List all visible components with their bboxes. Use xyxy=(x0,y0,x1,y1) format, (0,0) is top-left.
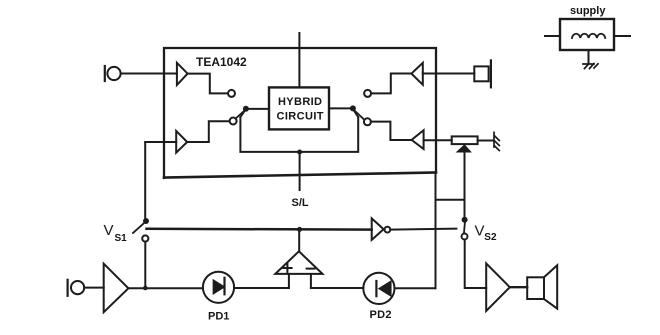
wire VS2 drop to A5 xyxy=(465,240,487,289)
inductor L (supply coil) xyxy=(572,34,605,38)
wire lower contact to A4 xyxy=(371,122,412,140)
svg-text:TEA1042: TEA1042 xyxy=(196,55,247,69)
wire A4 to potentiometer xyxy=(424,139,452,141)
svg-text:S2: S2 xyxy=(484,232,497,243)
inverter U2 xyxy=(372,218,384,240)
wire M1 to A1 xyxy=(121,73,177,75)
svg-text:V: V xyxy=(475,223,485,240)
svg-text:HYBRID: HYBRID xyxy=(278,96,322,108)
linkage stub left xyxy=(240,112,244,118)
switch VS1 pole dot xyxy=(143,218,149,224)
contact upper-right (open circle) xyxy=(364,90,371,97)
contact lower-right (open circle) xyxy=(364,118,371,125)
amplifier A2 xyxy=(176,131,187,153)
switch VS2 pole dot xyxy=(462,217,468,223)
inverter U2 bubble xyxy=(385,227,391,233)
wire A2 input xyxy=(145,141,176,143)
ground (supply) xyxy=(583,64,598,69)
wire VS1 to inverter (signal line) xyxy=(147,228,372,231)
microphone M1 xyxy=(105,66,121,81)
wire rail PD1 to opamp xyxy=(234,287,289,289)
amplifier A1 xyxy=(177,63,188,85)
switch S2 pole dot xyxy=(350,105,356,111)
ground (chassis) xyxy=(494,132,499,150)
wire supply left xyxy=(545,35,560,37)
svg-text:PD2: PD2 xyxy=(370,309,392,321)
photodiode PD2 xyxy=(363,273,394,304)
wire supply right xyxy=(614,35,630,37)
amplifier A6 xyxy=(104,264,129,313)
wire supply ground stub xyxy=(588,50,590,64)
contact lower-left (open circle) xyxy=(230,118,237,125)
wire A2 out to lower contact xyxy=(187,121,229,142)
amplifier A3 xyxy=(411,63,422,85)
wire opamp riser xyxy=(298,229,300,251)
switch VS2 link xyxy=(464,223,465,234)
photodiode PD1 xyxy=(203,272,234,303)
wire R1 to ground xyxy=(478,140,493,142)
amplifier A4 xyxy=(412,130,424,149)
wire upper contact to A3 xyxy=(371,74,411,94)
switch VS1 contact (open circle) xyxy=(142,235,148,241)
potentiometer R1 wiper arrow xyxy=(458,145,471,151)
wire right riser (rail up) xyxy=(435,173,437,289)
earpiece xyxy=(474,60,491,87)
label minus xyxy=(307,268,315,270)
wire A3 to earpiece xyxy=(423,73,475,75)
wire A1 out to upper contact xyxy=(188,74,228,94)
wire hybrid right to pole xyxy=(329,107,353,109)
wire VS1 riser xyxy=(144,142,146,218)
wire A5 to speaker xyxy=(510,286,527,288)
wire S/L drop xyxy=(299,152,301,190)
wire riser link to wiper xyxy=(436,199,465,201)
switch VS1 lever xyxy=(133,223,145,233)
switch S1 lever xyxy=(236,111,245,119)
svg-text:V: V xyxy=(104,222,114,239)
wire inverter to VS2 xyxy=(390,229,456,230)
svg-text:S1: S1 xyxy=(115,233,128,244)
wire opamp plus leg xyxy=(288,274,290,288)
switch S2 lever xyxy=(355,111,365,120)
wire rail opamp to PD2 xyxy=(311,287,363,289)
wire pole to hybrid left xyxy=(246,108,269,110)
node junction opamp feed xyxy=(297,227,302,232)
switch VS2 contact (open circle) xyxy=(462,234,468,240)
linkage loop S/L xyxy=(240,117,358,152)
label plus xyxy=(283,264,291,273)
wire rail PD2 to riser xyxy=(395,287,436,289)
switch S1 pole dot xyxy=(243,106,249,112)
svg-text:CIRCUIT: CIRCUIT xyxy=(277,111,324,123)
wire VS1 contact drop xyxy=(144,242,146,288)
node junction at rail xyxy=(143,286,148,291)
amplifier A5 xyxy=(486,263,510,311)
wire opamp minus leg xyxy=(310,274,312,288)
microphone M2 xyxy=(68,280,85,296)
svg-text:S/L: S/L xyxy=(292,197,309,209)
wire wiper down xyxy=(464,152,466,217)
svg-text:PD1: PD1 xyxy=(208,311,229,323)
wire top feed into hybrid xyxy=(298,33,300,88)
supply box xyxy=(560,19,614,50)
svg-text:supply: supply xyxy=(570,5,606,17)
IC box TEA1042 xyxy=(164,48,436,178)
contact upper-left (open circle) xyxy=(228,90,235,97)
wire M2 to A6 xyxy=(84,287,104,289)
potentiometer R1 body xyxy=(452,136,478,144)
wire rail A6 to PD1 xyxy=(128,287,203,289)
loudspeaker LS xyxy=(527,265,557,308)
linkage stub right xyxy=(355,112,359,118)
node S/L junction xyxy=(297,150,302,155)
op-amp U1 xyxy=(275,251,322,274)
hybrid circuit box xyxy=(269,87,329,129)
IC box bottom edge xyxy=(164,173,436,178)
